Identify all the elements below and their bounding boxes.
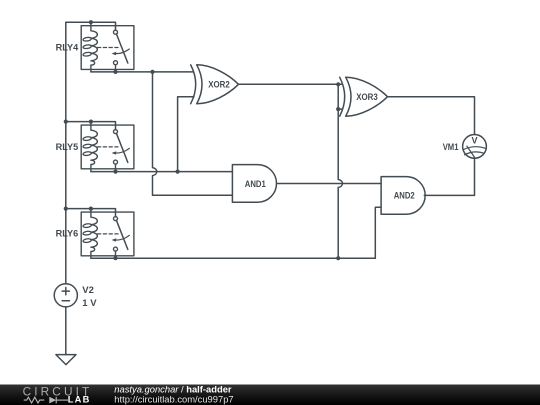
junction: XOR3 input B node [336, 107, 340, 111]
svg-text:http://circuitlab.com/cu997p7: http://circuitlab.com/cu997p7 [114, 394, 233, 405]
relay RLY5 [81, 122, 134, 172]
wire: vertical to XOR2 input B [178, 97, 194, 172]
and gate AND2 [381, 177, 425, 215]
svg-text:V2: V2 [82, 285, 94, 296]
junction: XOR3 input A node [336, 82, 340, 86]
wire: RLY5 bottom wire to AND1 input A [91, 171, 233, 173]
relay RLY6 [81, 209, 134, 259]
wire: RLY6 top wire [66, 209, 116, 217]
svg-text:XOR3: XOR3 [356, 92, 378, 103]
junction: RLY5 output tap to XOR2 [176, 170, 180, 174]
ground [56, 355, 76, 365]
and gate AND1 [232, 165, 276, 203]
wire: RLY6 bottom wire to AND2 input B corner [91, 257, 375, 259]
junction: rail to RLY5 [64, 120, 68, 124]
junction: RLY5 switch bottom tap [113, 170, 117, 174]
wire: AND1 output to AND2 input A [277, 183, 382, 185]
wire: RLY4 top wire rail to switch common [66, 22, 116, 30]
svg-text:XOR2: XOR2 [208, 80, 230, 91]
wire: RLY4 bottom wire to XOR2 input A [91, 71, 194, 73]
junction: RLY4 switch bottom tap [113, 70, 117, 74]
xor gate XOR2 [191, 65, 239, 104]
wire: V2 minus to ground [65, 307, 67, 355]
voltage source V2 [54, 284, 77, 307]
wire: AND2 output to VM1 bottom [424, 158, 474, 195]
voltmeter VM1 [463, 135, 487, 159]
svg-text:AND1: AND1 [245, 179, 267, 190]
wire: left rail from RLY4 top down to V2 + [65, 22, 67, 284]
junction: RLY4 coil top tap [89, 20, 93, 24]
junction: RLY4 output tap to AND1 [150, 70, 154, 74]
footer bar [0, 385, 540, 405]
junction: RLY6 wire to XOR3 riser [336, 256, 340, 260]
svg-text:AND2: AND2 [394, 191, 415, 202]
svg-text:RLY5: RLY5 [56, 142, 79, 153]
relay RLY4 [81, 22, 134, 72]
junction: RLY5 coil top tap [89, 120, 93, 124]
junction: RLY6 switch bottom tap [113, 256, 117, 260]
svg-text:VM1: VM1 [443, 142, 459, 153]
wire: XOR3 output to VM1 top [388, 97, 475, 135]
wire: vertical XOR3 inputs down with hop to RLY6 wire [338, 84, 342, 258]
svg-text:V: V [471, 135, 477, 145]
wire: RLY5 top wire [66, 122, 116, 130]
logo resistor and diode [24, 397, 68, 404]
wire: AND2 input B riser [375, 207, 381, 258]
svg-text:LAB: LAB [68, 394, 91, 404]
svg-text:1 V: 1 V [82, 298, 97, 309]
junction: rail to RLY6 [64, 207, 68, 211]
wire: XOR2 output to XOR3 input A node [239, 83, 339, 85]
wire: vertical tap with hop to AND1 input B [153, 72, 233, 195]
svg-text:RLY4: RLY4 [56, 42, 79, 53]
junction: RLY6 coil top tap [89, 207, 93, 211]
wire: XOR3 input B stub [338, 84, 342, 109]
xor gate XOR3 [340, 77, 388, 116]
svg-text:RLY6: RLY6 [56, 229, 79, 240]
